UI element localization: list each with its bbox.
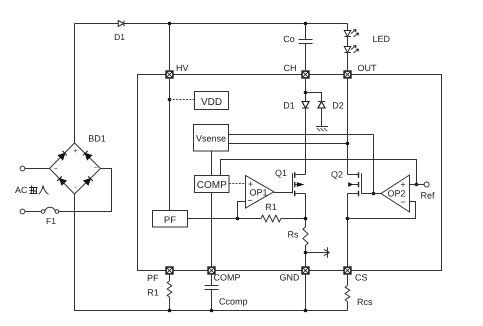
svg-text:HV: HV [176,63,189,73]
svg-text:~: ~ [54,166,58,173]
svg-text:~: ~ [94,165,98,172]
svg-text:D1: D1 [114,32,125,42]
svg-text:COMP: COMP [197,180,227,191]
svg-text:OUT: OUT [358,63,378,73]
svg-text:+: + [73,148,77,155]
svg-text:Co: Co [283,34,295,44]
svg-text:Ccomp: Ccomp [219,297,248,307]
svg-text:-: - [74,184,77,191]
svg-text:Q1: Q1 [275,168,287,178]
svg-text:Rcs: Rcs [357,297,373,307]
svg-text:CS: CS [355,273,368,283]
svg-text:Rs: Rs [288,230,299,240]
svg-text:BD1: BD1 [88,134,106,144]
svg-text:D2: D2 [332,101,344,111]
svg-text:−: − [400,197,405,207]
svg-text:CH: CH [284,63,297,73]
svg-text:PF: PF [164,215,176,226]
svg-text:PF: PF [147,273,159,283]
svg-text:R1: R1 [147,288,159,298]
svg-text:Vsense: Vsense [196,134,226,144]
svg-text:OP1: OP1 [249,188,267,198]
svg-text:OP2: OP2 [387,189,405,199]
svg-text:VDD: VDD [201,97,222,108]
svg-text:Q2: Q2 [331,170,343,180]
svg-text:LED: LED [373,34,391,44]
svg-text:F1: F1 [46,216,56,226]
svg-text:AC: AC [15,185,28,195]
svg-text:R1: R1 [265,202,277,212]
svg-text:D1: D1 [283,101,295,111]
svg-text:GND: GND [280,273,301,283]
svg-text:COMP: COMP [214,273,241,283]
svg-text:Ref: Ref [421,191,436,201]
